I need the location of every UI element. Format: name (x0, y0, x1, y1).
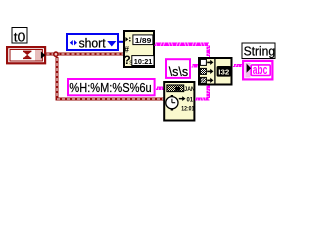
function Format Date/Time String U2 (164, 82, 195, 121)
wire: time stamp horizontal (46, 53, 124, 56)
svg-text:abc: abc (253, 63, 268, 77)
function Get Date/Time String U1 (123, 31, 154, 67)
svg-text:01: 01 (187, 96, 194, 103)
svg-text:String: String (244, 43, 276, 58)
time stamp constant t0 (7, 47, 45, 63)
wire junction dot (54, 52, 58, 56)
svg-text:t0: t0 (14, 29, 25, 44)
wire: convert node to String indicator (233, 64, 243, 66)
svg-text:I32: I32 (218, 69, 229, 76)
wire: time format string to Format Date/Time String (156, 87, 164, 89)
wire: formatted string to convert node bottom (195, 86, 210, 100)
wire: ring to date format input (119, 41, 124, 43)
string indicator String (243, 61, 272, 80)
svg-text:12:01: 12:01 (181, 105, 194, 112)
svg-text:JAN: JAN (184, 86, 195, 93)
label t0 (12, 28, 27, 45)
svg-text:\s\s: \s\s (169, 64, 189, 79)
function convert node I32 (199, 58, 232, 85)
string constant \s\s (166, 59, 190, 79)
svg-text:10:21: 10:21 (134, 59, 153, 66)
wire: date string to convert node (155, 43, 210, 57)
wire: time stamp vertical branch (56, 57, 59, 101)
svg-text:short: short (79, 37, 107, 51)
string constant %H:%M:%S%6u (68, 79, 155, 95)
wire: time stamp to Format Date/Time String (56, 98, 164, 101)
svg-text:1/89: 1/89 (135, 36, 152, 45)
ring constant short (67, 34, 118, 51)
label String (242, 43, 275, 59)
wire: \s\s to convert node (192, 65, 200, 67)
svg-text:%H:%M:%S%6u: %H:%M:%S%6u (69, 80, 151, 95)
